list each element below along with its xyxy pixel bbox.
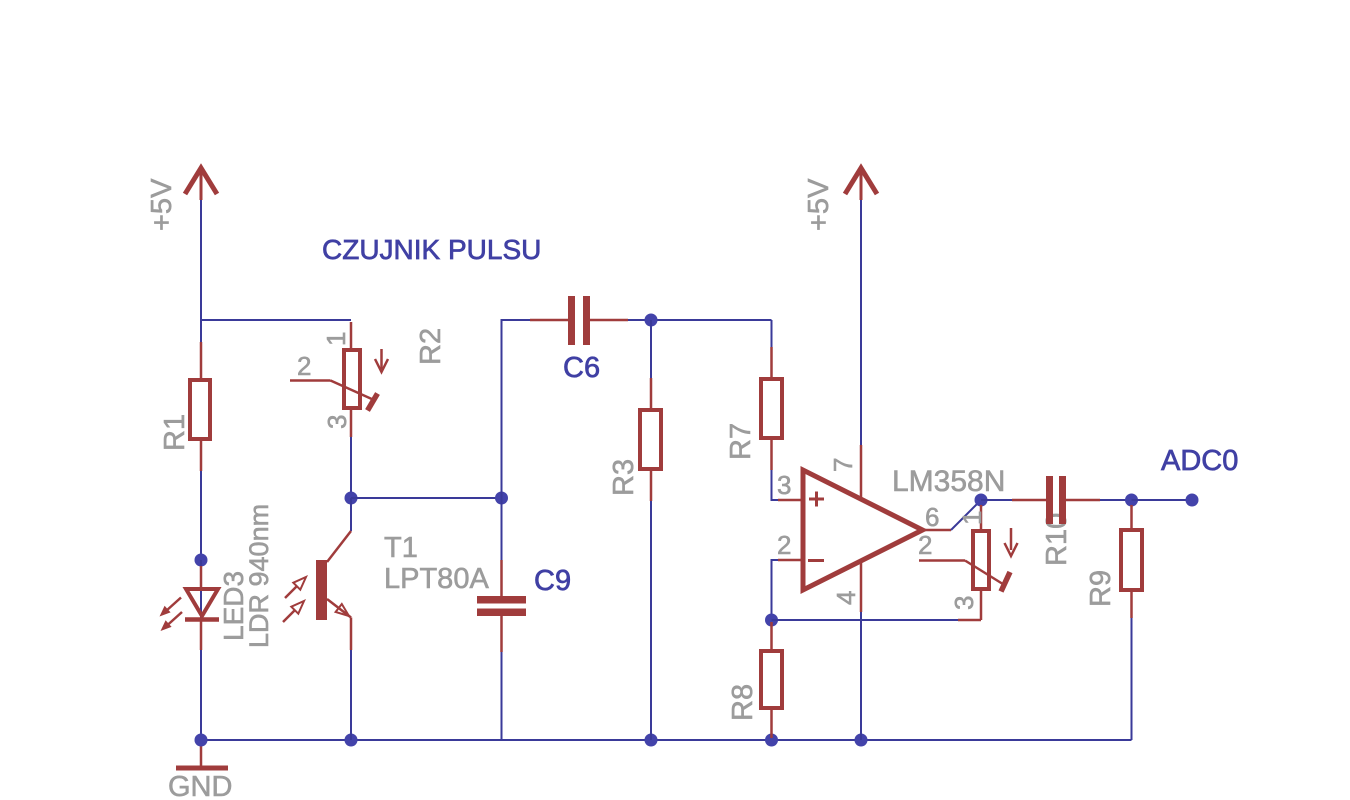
- LED3 emission arrow a: [166, 598, 181, 612]
- LED3 emission arrow b: [167, 612, 182, 626]
- wire to ADC0 terminal: [1132, 499, 1187, 501]
- power +5V symbol left: [185, 168, 217, 200]
- wire feedback row: [772, 619, 959, 621]
- wire +5V left down: [200, 200, 202, 356]
- wire LED3 column to ground rail: [200, 560, 202, 740]
- svg-text:LDR 940nm: LDR 940nm: [244, 504, 274, 648]
- svg-text:1: 1: [957, 511, 987, 525]
- junction rail at R3 column: [645, 734, 658, 747]
- wire R7 to opamp pin3: [772, 470, 781, 500]
- resistor R1: [190, 342, 210, 471]
- wire R3 to rail: [650, 501, 652, 740]
- R2 adjust arrow: [380, 349, 383, 369]
- T1 light arrow b: [283, 610, 295, 622]
- svg-text:C6: C6: [563, 352, 600, 384]
- capacitor C6: [530, 296, 628, 345]
- opamp minus sign: [808, 559, 824, 562]
- capacitor C8: [1012, 476, 1100, 524]
- resistor R8: [761, 622, 782, 738]
- opamp pin3 stub: [778, 499, 801, 502]
- resistor R7: [761, 347, 782, 470]
- wire +5V right down to pin7: [860, 200, 862, 447]
- T1 light arrow a: [285, 586, 297, 598]
- svg-text:R2: R2: [415, 328, 447, 365]
- junction node feedback/R8: [765, 614, 778, 627]
- svg-text:T1: T1: [384, 532, 418, 564]
- svg-text:+5V: +5V: [146, 178, 178, 231]
- resistor R3: [640, 378, 661, 501]
- svg-text:R10: R10: [1041, 513, 1073, 566]
- svg-text:ADC0: ADC0: [1161, 445, 1238, 477]
- svg-text:2: 2: [297, 351, 311, 381]
- power +5V symbol right: [845, 168, 877, 200]
- svg-text:R8: R8: [727, 684, 759, 721]
- opamp plus sign: [809, 492, 824, 507]
- wire R1 to LED3 node: [200, 471, 202, 560]
- svg-text:3: 3: [322, 415, 352, 429]
- svg-text:C9: C9: [534, 565, 571, 597]
- svg-text:2: 2: [777, 530, 791, 560]
- wire C6 to R3/R7 row: [628, 319, 772, 321]
- svg-text:1: 1: [321, 332, 351, 346]
- svg-text:R9: R9: [1085, 570, 1117, 607]
- svg-text:R7: R7: [725, 423, 757, 460]
- phototransistor T1: [283, 498, 351, 740]
- op-amp U1 LM358N triangle: [803, 470, 923, 590]
- ground symbol: [176, 740, 228, 768]
- svg-text:GND: GND: [168, 771, 232, 800]
- svg-text:R1: R1: [159, 414, 191, 451]
- junction node R9/ADC0: [1125, 494, 1138, 507]
- wire output to C8: [981, 499, 1012, 501]
- wire mid node horizontal: [351, 497, 502, 499]
- LED LED3: [160, 566, 220, 650]
- wire output diagonal: [951, 500, 981, 530]
- wire down to R3: [650, 320, 652, 378]
- R10 adjust arrow: [1010, 528, 1013, 550]
- wire branch to R2 pin1: [200, 319, 351, 321]
- junction node C6/C9 column: [495, 492, 508, 505]
- potentiometer R2: [290, 322, 388, 437]
- wire pin2 to feedback node: [772, 560, 781, 620]
- svg-text:2: 2: [918, 530, 932, 560]
- svg-text:3: 3: [777, 470, 791, 500]
- wire R7 top: [771, 320, 773, 347]
- junction node R2/T1: [345, 492, 358, 505]
- wire feedback red stub to R10 pin3: [958, 619, 981, 622]
- svg-text:LPT80A: LPT80A: [384, 563, 489, 595]
- wire mid node up to C6 row: [502, 320, 539, 498]
- node ADC0 terminal: [1186, 494, 1199, 507]
- svg-text:4: 4: [831, 591, 861, 605]
- junction node R1/LED3: [195, 554, 208, 567]
- junction rail at T1 column: [345, 734, 358, 747]
- ground rail wire: [201, 739, 1132, 741]
- svg-text:3: 3: [949, 596, 979, 610]
- svg-text:7: 7: [828, 458, 858, 472]
- capacitor C9: [477, 498, 526, 740]
- junction node C6/R3: [645, 314, 658, 327]
- svg-text:LM358N: LM358N: [892, 465, 1005, 498]
- resistor R9: [1121, 505, 1142, 618]
- svg-text:+5V: +5V: [803, 178, 835, 231]
- opamp pin2 stub: [778, 559, 801, 562]
- opamp pin6 output stub: [925, 529, 951, 532]
- svg-text:6: 6: [925, 502, 939, 532]
- potentiometer R10: [919, 505, 1018, 620]
- R2 wiper pin 2: [290, 379, 331, 382]
- R10 wiper pin 2: [919, 559, 965, 562]
- junction node output: [975, 494, 988, 507]
- opamp pin4 stub: [860, 561, 863, 612]
- wire R9 to rail: [1131, 618, 1133, 740]
- junction rail at R8 column: [765, 734, 778, 747]
- wire C8 to R9 node: [1100, 499, 1132, 501]
- svg-text:R3: R3: [608, 459, 640, 496]
- wire pin4 to rail: [860, 612, 862, 740]
- junction rail at LED column: [195, 734, 208, 747]
- wire R2 pin3 down to node: [350, 437, 352, 498]
- svg-text:CZUJNIK PULSU: CZUJNIK PULSU: [322, 234, 541, 265]
- opamp pin7 stub: [860, 445, 863, 499]
- junction rail at opamp pin4 column: [855, 734, 868, 747]
